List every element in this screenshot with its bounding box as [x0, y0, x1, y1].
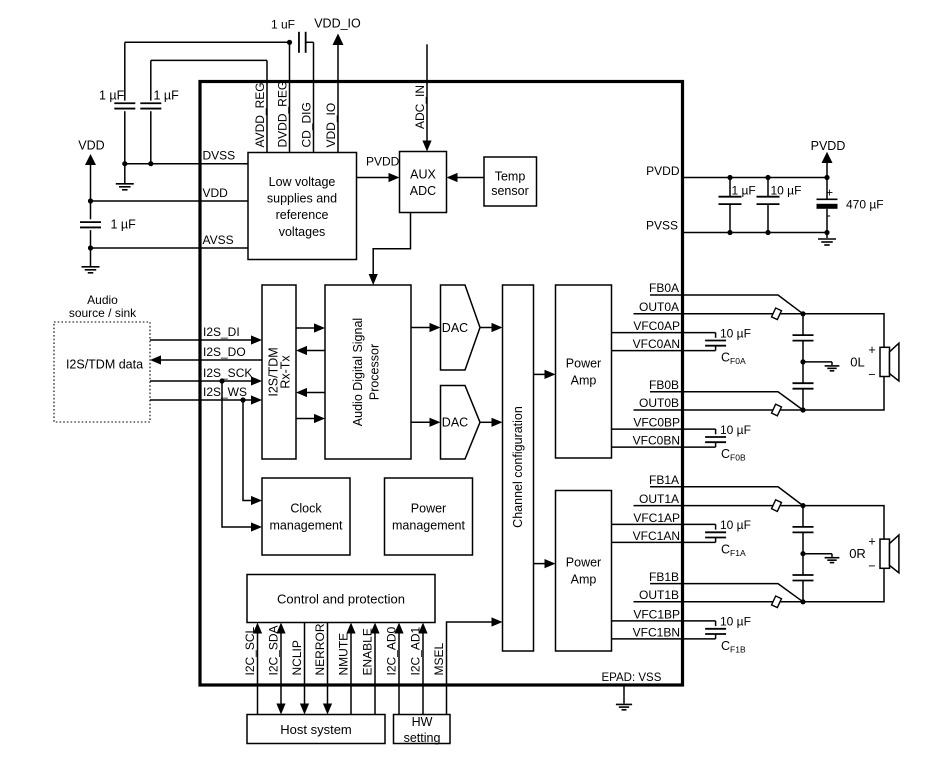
capacitor 1uF DVDD right: [140, 102, 161, 104]
node PVSS cap1: [727, 230, 732, 235]
wire output cap string ch1: [802, 506, 804, 602]
svg-text:OUT1B: OUT1B: [639, 588, 679, 602]
node PVSS cap2: [765, 230, 770, 235]
svg-text:Processor: Processor: [368, 344, 382, 400]
node I2S_SCK branch: [219, 378, 224, 383]
block: Low voltage supplies: [248, 153, 357, 260]
arrow DAC0 to channel config: [480, 327, 492, 329]
wire cap2 to DVSS rail: [150, 111, 152, 164]
svg-text:10 µF: 10 µF: [771, 184, 802, 198]
wire FB1A: [650, 487, 803, 506]
speaker 0R cone: [890, 535, 899, 573]
svg-text:FB1B: FB1B: [649, 570, 679, 584]
wire VDD rail to chip: [91, 200, 249, 202]
svg-text:1 µF: 1 µF: [111, 217, 137, 231]
wire AUX ADC to DSP: [373, 213, 410, 276]
svg-text:Control and protection: Control and protection: [277, 592, 405, 607]
svg-text:Audio: Audio: [87, 293, 118, 307]
svg-text:ADC_IN: ADC_IN: [413, 85, 427, 129]
arrow config to PowerAmp1: [534, 563, 546, 565]
node PVDD cap1: [727, 175, 732, 180]
svg-text:DVSS: DVSS: [203, 149, 236, 163]
ground below AVSS: [90, 248, 92, 266]
svg-text:VFC0AP: VFC0AP: [633, 319, 680, 333]
svg-text:VDD: VDD: [203, 186, 229, 200]
svg-text:CD_DIG: CD_DIG: [299, 102, 313, 147]
wire I2S_WS: [150, 399, 252, 401]
block: audio source dashed box: [54, 322, 150, 422]
wire output cap string ch0: [802, 314, 804, 410]
svg-text:I2S_DO: I2S_DO: [203, 345, 246, 359]
wire VFC0BN: [612, 446, 716, 448]
wire PVDD rail: [683, 177, 828, 179]
ground filter mid ch1: [831, 554, 833, 557]
svg-text:VFC1BP: VFC1BP: [633, 607, 680, 621]
wire FB0A: [650, 295, 803, 314]
wire AVDD_REG pin drop: [266, 60, 268, 152]
block: Power Amp 1: [556, 491, 612, 652]
wire FB1B: [650, 584, 803, 602]
arrow AUX ADC into DSP: [369, 274, 378, 285]
wire pin I2C_SDA: [280, 632, 282, 704]
svg-text:0R: 0R: [849, 546, 866, 561]
node PVSS bulk: [824, 230, 829, 235]
ground below DVSS rail: [124, 164, 126, 183]
capacitor filter top ch1: [793, 527, 814, 533]
node output 0A: [800, 311, 805, 316]
svg-text:1 uF: 1 uF: [271, 18, 295, 32]
svg-text:MSEL: MSEL: [432, 642, 446, 675]
ferrite bead OUT1B: [772, 596, 782, 608]
svg-text:VFC1BN: VFC1BN: [633, 625, 680, 639]
svg-text:NMUTE: NMUTE: [336, 633, 350, 676]
arrow config to PowerAmp0: [534, 373, 546, 375]
DAC 1 shape: [441, 386, 481, 460]
svg-text:PVSS: PVSS: [646, 219, 678, 233]
capacitor 470uF electrolytic: [826, 178, 828, 200]
node output 0B: [800, 407, 805, 412]
block: Power Amp 0: [556, 285, 612, 458]
svg-text:PVDD: PVDD: [811, 139, 846, 153]
svg-text:VDD_IO: VDD_IO: [314, 17, 361, 31]
wire VDD_IO pin: [337, 44, 339, 153]
ground EPAD: [623, 687, 625, 704]
block: Audio DSP: [325, 285, 411, 459]
wire VFC0BP: [612, 428, 716, 430]
chip boundary (IC outline): [200, 82, 683, 686]
svg-text:I2S_WS: I2S_WS: [203, 385, 247, 399]
capacitor 1uF PVDD: [729, 178, 731, 197]
wire WS to clock mgmt: [243, 400, 252, 501]
node filter mid ch1: [800, 551, 805, 556]
svg-text:VFC0AN: VFC0AN: [633, 337, 680, 351]
svg-text:FB0A: FB0A: [649, 281, 679, 295]
wire AVDD_REG cap branch: [150, 60, 152, 100]
svg-text:VFC1AN: VFC1AN: [633, 529, 680, 543]
block: AUX ADC: [400, 152, 447, 213]
speaker 0R body: [880, 539, 890, 568]
ferrite bead OUT0B: [772, 404, 782, 416]
wire CD_DIG pin drop: [313, 42, 315, 152]
wire AVSS rail to chip: [91, 247, 249, 249]
arrow I2C_AD1 into control: [418, 623, 427, 634]
block: Host system: [247, 715, 385, 744]
arrow ENABLE into control: [370, 623, 379, 634]
svg-text:AVSS: AVSS: [203, 233, 234, 247]
arrow I2S to DSP upper: [296, 327, 315, 329]
svg-text:ENABLE: ENABLE: [360, 628, 374, 675]
wire VFC1BN: [612, 638, 716, 640]
node VDD-cap junction: [88, 198, 93, 203]
node DVSS-cap1: [122, 161, 127, 166]
block: Channel configuration: [503, 285, 534, 651]
wire speaker loop ch0: [803, 314, 884, 349]
arrow DSP to DAC1: [411, 421, 430, 423]
svg-text:Host system: Host system: [280, 722, 352, 737]
block: Temp sensor: [484, 157, 537, 206]
wire DVDD_REG cap branch: [124, 42, 126, 100]
svg-text:EPAD: VSS: EPAD: VSS: [602, 672, 662, 684]
capacitor 10uF C_F0A: [705, 340, 726, 342]
capacitor 1uF AVDD left: [114, 102, 135, 104]
svg-text:OUT0A: OUT0A: [639, 300, 679, 314]
svg-text:+: +: [868, 535, 875, 549]
arrow I2C_SDA into control: [276, 623, 285, 634]
wire pin NMUTE: [350, 632, 352, 715]
svg-text:+: +: [826, 185, 833, 199]
ferrite bead OUT1A: [772, 500, 782, 512]
svg-text:1 µF: 1 µF: [99, 89, 125, 103]
ground below 470uF: [826, 233, 828, 239]
wire SCK to clock mgmt: [222, 381, 252, 527]
wire PVDD internal: [357, 177, 390, 179]
svg-text:+: +: [868, 343, 875, 357]
svg-text:10 µF: 10 µF: [720, 326, 751, 340]
wire cap to DVSS rail: [124, 111, 126, 164]
wire VFC0AN: [612, 350, 716, 352]
wire OUT0B: [634, 409, 804, 411]
arrow NERROR into host: [323, 704, 332, 715]
wire ADC_IN: [426, 44, 428, 141]
arrow DSP to DAC0: [411, 327, 430, 329]
svg-text:Audio Digital Signal: Audio Digital Signal: [351, 318, 365, 426]
svg-text:470 µF: 470 µF: [846, 198, 884, 212]
svg-text:FB0B: FB0B: [649, 378, 679, 392]
capacitor 1uF CD_DIG: [298, 32, 300, 53]
wire mid to ground ch1: [803, 553, 832, 555]
wire VFC1AP: [612, 523, 716, 525]
wire I2S_DO: [160, 359, 262, 361]
svg-text:1 µF: 1 µF: [732, 184, 756, 198]
speaker 0L body: [880, 347, 890, 376]
arrow SCK into clock mgmt: [251, 522, 262, 531]
wire PVSS rail: [683, 232, 828, 234]
arrow I2S to DSP lower: [296, 418, 315, 420]
wire pin ENABLE: [374, 632, 376, 715]
svg-text:1 µF: 1 µF: [154, 89, 180, 103]
wire pin I2C_SCL: [257, 632, 259, 715]
wire AVDD_REG net top: [151, 59, 267, 61]
svg-text:I2C_AD1: I2C_AD1: [408, 626, 422, 675]
arrow into AUX ADC right: [447, 173, 458, 182]
wire OUT1B: [634, 601, 804, 603]
svg-text:VFC0BN: VFC0BN: [633, 434, 680, 448]
svg-text:VDD: VDD: [78, 139, 104, 153]
arrow PVDD into AUX ADC: [389, 173, 400, 182]
svg-text:FB1A: FB1A: [649, 473, 679, 487]
svg-text:NERROR: NERROR: [313, 623, 327, 675]
svg-text:I2C_SCL: I2C_SCL: [243, 626, 257, 675]
wire pin NERROR: [327, 623, 329, 705]
arrow I2S_DI into chip: [251, 335, 262, 344]
arrow I2S_DO into source: [150, 355, 161, 364]
svg-text:source / sink: source / sink: [69, 306, 137, 320]
arrow DAC1 to channel config: [480, 421, 492, 423]
arrow MSEL into channel config: [492, 617, 503, 626]
wire MSEL: [447, 622, 493, 715]
svg-text:−: −: [868, 367, 875, 381]
arrow I2C_AD0 into control: [394, 623, 403, 634]
svg-text:PVDD: PVDD: [366, 155, 400, 169]
svg-text:−: −: [868, 559, 875, 573]
wire DVDD_REG net top: [125, 41, 290, 43]
ADC_IN arrow into AUX ADC: [422, 141, 431, 152]
wire cap to CD_DIG: [306, 41, 314, 43]
capacitor filter bottom ch0: [793, 383, 814, 389]
svg-text:NCLIP: NCLIP: [290, 640, 304, 675]
wire pin I2C_AD0: [398, 632, 400, 715]
svg-text:10 µF: 10 µF: [720, 615, 751, 629]
capacitor 10uF C_F0B: [705, 436, 726, 438]
block: HW setting: [394, 715, 451, 744]
svg-text:10 µF: 10 µF: [720, 518, 751, 532]
arrow DSP to I2S lower: [306, 392, 325, 394]
svg-text:I2C_AD0: I2C_AD0: [384, 626, 398, 675]
svg-text:VFC1AP: VFC1AP: [633, 511, 680, 525]
wire VDD to decoupling cap: [90, 201, 92, 219]
block: I2S/TDM Rx-Tx: [262, 285, 296, 459]
capacitor 10uF C_F1A: [705, 531, 726, 533]
node DVDD_REG top junction: [287, 40, 292, 45]
wire pin I2C_AD1: [422, 632, 424, 715]
capacitor 10uF C_F1B: [705, 628, 726, 630]
svg-text:Tempsensor: Tempsensor: [491, 169, 529, 198]
wire DVDD_REG pin drop: [289, 42, 291, 152]
wire OUT0A: [634, 313, 804, 315]
capacitor filter top ch0: [793, 335, 814, 341]
node PVDD bulk: [824, 175, 829, 180]
VDD supply arrow: [85, 154, 96, 165]
node output 1A: [800, 503, 805, 508]
DAC 0 shape: [441, 285, 481, 370]
PVDD supply arrow: [822, 152, 833, 163]
svg-text:I2S/TDM data: I2S/TDM data: [66, 358, 143, 372]
block: Control and protection: [247, 575, 435, 623]
node DVSS-cap2: [148, 161, 153, 166]
svg-text:0L: 0L: [850, 354, 864, 369]
arrow I2S_WS into chip: [251, 395, 262, 404]
wire VFC1BP: [612, 620, 716, 622]
wire pin NCLIP: [304, 623, 306, 705]
svg-text:10 µF: 10 µF: [720, 423, 751, 437]
svg-text:Rx-Tx: Rx-Tx: [279, 355, 293, 389]
svg-text:DVDD_REG: DVDD_REG: [275, 81, 289, 148]
capacitor 10uF PVDD: [767, 178, 769, 197]
wire mid to ground ch0: [803, 361, 832, 363]
svg-text:Channel configuration: Channel configuration: [511, 406, 525, 528]
ground filter mid ch0: [831, 362, 833, 365]
arrow I2C_SCL into control: [253, 623, 262, 634]
wire I2S_SCK: [150, 380, 252, 382]
svg-text:-: -: [826, 208, 830, 223]
svg-text:DAC: DAC: [442, 416, 468, 430]
arrow DSP to I2S upper: [306, 350, 325, 352]
arrow I2S_SCK into chip: [251, 376, 262, 385]
capacitor 1uF VDD-AVSS: [80, 221, 101, 223]
ferrite bead OUT0A: [772, 308, 782, 320]
block: Power management: [385, 478, 473, 555]
node PVDD cap2: [765, 175, 770, 180]
wire I2S_DI: [150, 339, 252, 341]
wire VFC0AP: [612, 332, 716, 334]
svg-text:I2S_SCK: I2S_SCK: [203, 366, 252, 380]
speaker 0L cone: [890, 343, 899, 381]
node output 1B: [800, 599, 805, 604]
wire Temp sensor to AUX ADC: [457, 177, 484, 179]
wire VFC1AN: [612, 541, 716, 543]
capacitor filter bottom ch1: [793, 575, 814, 581]
node AVSS junction: [88, 245, 93, 250]
svg-text:VDD_IO: VDD_IO: [324, 103, 338, 148]
svg-text:OUT0B: OUT0B: [639, 396, 679, 410]
svg-text:VFC0BP: VFC0BP: [633, 416, 680, 430]
arrow NCLIP into host: [300, 704, 309, 715]
wire DVSS rail: [125, 163, 248, 165]
svg-text:AVDD_REG: AVDD_REG: [253, 82, 267, 147]
node I2S_WS branch: [240, 397, 245, 402]
block: Clock management: [262, 478, 350, 555]
svg-text:DAC: DAC: [442, 321, 468, 335]
svg-text:I2C_SDA: I2C_SDA: [266, 625, 280, 675]
arrow I2C_SDA into host: [276, 704, 285, 715]
node filter mid ch0: [800, 359, 805, 364]
wire speaker loop ch1: [803, 506, 884, 541]
arrow WS into clock mgmt: [251, 496, 262, 505]
arrow NMUTE into control: [346, 623, 355, 634]
svg-text:I2S_DI: I2S_DI: [203, 325, 240, 339]
wire FB0B: [650, 392, 803, 410]
svg-text:OUT1A: OUT1A: [639, 492, 679, 506]
wire cap to AVSS rail: [90, 230, 92, 248]
wire OUT1A: [634, 505, 804, 507]
svg-text:PVDD: PVDD: [646, 164, 680, 178]
VDD_IO arrow up: [333, 34, 344, 46]
